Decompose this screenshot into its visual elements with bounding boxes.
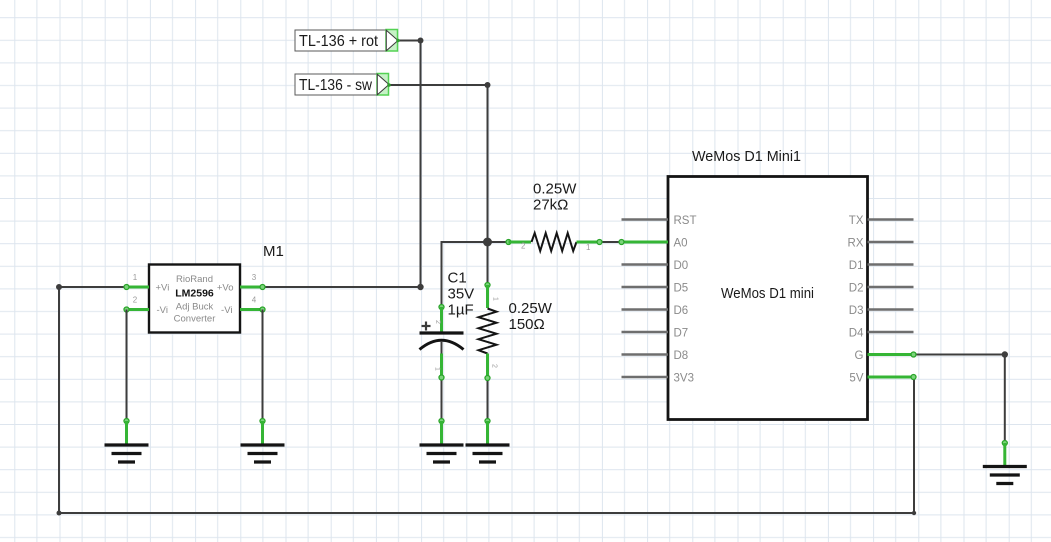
node at bottom-left corner <box>57 511 62 516</box>
svg-text:D3: D3 <box>849 305 864 317</box>
wire WeMos G to right ground <box>914 355 1005 444</box>
svg-text:0.25W: 0.25W <box>533 181 577 198</box>
svg-text:35V: 35V <box>448 286 475 303</box>
node at +Vo corner <box>417 284 423 290</box>
pin 3 +Vo of M1 <box>240 273 265 290</box>
wire junction A down to resistor 150 pin 1 <box>487 242 489 285</box>
pin D4 of WeMos <box>868 331 914 334</box>
net label TL-136 - sw <box>295 74 391 96</box>
svg-text:5V: 5V <box>849 372 863 384</box>
pin 1 +Vi of M1 <box>124 273 149 290</box>
svg-text:TL-136 - sw: TL-136 - sw <box>299 77 372 94</box>
pin D0 of WeMos <box>622 263 669 266</box>
pin D2 of WeMos <box>868 286 914 289</box>
ground under resistor 150 <box>466 419 510 463</box>
svg-text:D1: D1 <box>849 260 864 272</box>
capacitor C1 35V 1uF <box>420 270 475 381</box>
svg-text:D2: D2 <box>849 282 864 294</box>
svg-text:2: 2 <box>521 242 526 251</box>
pin 4 -Vi of M1 <box>240 296 265 313</box>
svg-text:D6: D6 <box>674 305 689 317</box>
svg-text:RioRand: RioRand <box>176 274 213 285</box>
svg-text:D8: D8 <box>674 350 689 362</box>
svg-text:0.25W: 0.25W <box>509 300 553 317</box>
node at bottom-right corner <box>912 511 916 515</box>
wire M1 +Vo to TL-136 + rot <box>263 41 421 288</box>
pin D1 of WeMos <box>868 263 914 266</box>
ground under capacitor C1 <box>420 419 464 463</box>
svg-text:3V3: 3V3 <box>674 372 694 384</box>
svg-text:TL-136 + rot: TL-136 + rot <box>299 33 378 50</box>
wire junction A to capacitor C1 <box>442 242 488 307</box>
pin 2 -Vi of M1 <box>124 296 149 313</box>
resistor 27k 0.25W horizontal <box>506 181 602 253</box>
svg-text:WeMos D1 Mini1: WeMos D1 Mini1 <box>692 148 801 165</box>
svg-text:D5: D5 <box>674 282 689 294</box>
ground under M1 pin 4 <box>241 419 285 463</box>
junction node A <box>483 238 492 247</box>
pin D5 of WeMos <box>622 286 669 289</box>
pin D7 of WeMos <box>622 331 669 334</box>
node at G wire corner <box>1002 351 1008 357</box>
svg-text:D4: D4 <box>849 327 864 339</box>
svg-text:150Ω: 150Ω <box>509 316 545 333</box>
svg-text:TX: TX <box>849 215 864 227</box>
svg-text:Converter: Converter <box>174 314 216 325</box>
svg-text:RX: RX <box>848 237 864 249</box>
node at M1 +Vi wire corner <box>56 284 62 290</box>
wire resistor 27k pin 1 to WeMos A0 <box>600 241 622 243</box>
pin D3 of WeMos <box>868 308 914 311</box>
module M1 RioRand LM2596 buck converter <box>149 243 284 333</box>
pin TX of WeMos <box>868 218 914 221</box>
pin A0 of WeMos <box>619 240 668 245</box>
wire M1 pin 4 to ground <box>262 310 264 421</box>
svg-text:-Vi: -Vi <box>221 305 232 316</box>
svg-text:M1: M1 <box>263 243 284 260</box>
net label TL-136 + rot <box>295 30 400 52</box>
svg-text:+Vo: +Vo <box>217 283 234 294</box>
wire resistor 150 pin 2 to ground <box>487 378 489 421</box>
ground under WeMos G <box>983 441 1027 484</box>
svg-text:D0: D0 <box>674 260 689 272</box>
ground under M1 pin 2 <box>105 419 149 463</box>
svg-text:C1: C1 <box>448 270 467 287</box>
pin G of WeMos <box>868 352 917 357</box>
svg-text:3: 3 <box>252 273 257 282</box>
pin D6 of WeMos <box>622 308 669 311</box>
svg-text:LM2596: LM2596 <box>175 288 214 300</box>
svg-text:A0: A0 <box>674 237 688 249</box>
wire junction A to resistor 27k pin 2 <box>488 241 509 243</box>
wire capacitor C1 to ground <box>441 378 443 421</box>
svg-text:+Vi: +Vi <box>156 283 170 294</box>
svg-text:Adj Buck: Adj Buck <box>176 302 214 313</box>
svg-text:-Vi: -Vi <box>157 305 168 316</box>
wire 5V loop: M1 +Vi to bottom rail up to WeMos 5V <box>59 287 914 513</box>
svg-text:2: 2 <box>491 364 498 368</box>
pin 3V3 of WeMos <box>622 376 669 379</box>
svg-text:1: 1 <box>133 273 138 282</box>
pin 5V of WeMos <box>868 375 917 380</box>
svg-text:2: 2 <box>434 320 441 324</box>
svg-text:27kΩ: 27kΩ <box>533 197 568 214</box>
svg-text:4: 4 <box>252 296 257 305</box>
pin D8 of WeMos <box>622 353 669 356</box>
svg-text:1µF: 1µF <box>448 302 474 319</box>
wire TL-136 - sw to junction A <box>389 85 488 242</box>
svg-text:G: G <box>855 350 864 362</box>
svg-text:1: 1 <box>586 243 591 252</box>
svg-text:D7: D7 <box>674 327 689 339</box>
resistor 150 0.25W vertical <box>479 283 553 381</box>
pin RX of WeMos <box>868 241 914 244</box>
svg-text:1: 1 <box>492 297 499 301</box>
node at rot label corner <box>418 38 424 44</box>
svg-text:1: 1 <box>434 367 441 371</box>
svg-text:WeMos D1 mini: WeMos D1 mini <box>721 285 814 302</box>
wire M1 pin 2 to ground <box>126 310 128 421</box>
IC WeMos D1 Mini1 <box>668 148 868 420</box>
pin RST of WeMos <box>622 218 669 221</box>
node at sw corner <box>485 82 491 88</box>
svg-text:2: 2 <box>133 296 138 305</box>
svg-text:RST: RST <box>674 215 697 227</box>
